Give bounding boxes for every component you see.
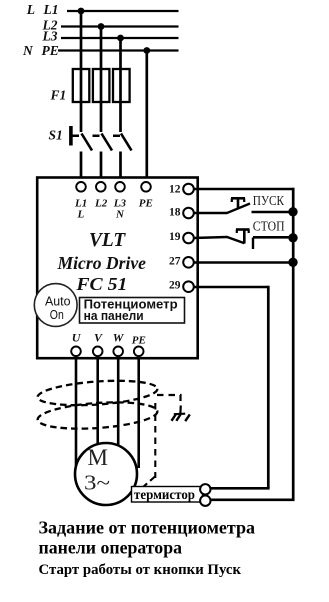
svg-text:на панели: на панели xyxy=(84,308,144,323)
svg-text:панели оператора: панели оператора xyxy=(39,538,183,558)
op-amp U1 drive box VLT Micro Drive FC 51 xyxy=(37,178,198,359)
panel potentiometer box xyxy=(80,298,185,324)
cable shield tail down xyxy=(154,403,156,478)
junction PE xyxy=(143,47,150,54)
node L L1 label xyxy=(26,2,59,17)
wire PE horizontal xyxy=(58,49,179,51)
wire L1 drop to fuse/switch xyxy=(80,11,83,132)
wire switch to terminal L3 xyxy=(119,152,122,185)
junction bus 18 xyxy=(288,207,297,216)
svg-text:Старт работы от кнопки Пуск: Старт работы от кнопки Пуск xyxy=(39,562,242,578)
cable shield loop 2 xyxy=(37,399,158,432)
svg-text:Micro Drive: Micro Drive xyxy=(56,253,146,273)
terminal 18 circle xyxy=(183,208,194,219)
svg-text:19: 19 xyxy=(169,231,181,243)
svg-text:N: N xyxy=(115,208,125,220)
node N PE label xyxy=(22,43,59,58)
junction bus 19 xyxy=(288,233,297,242)
svg-text:FC 51: FC 51 xyxy=(75,274,127,294)
panel potentiometer text xyxy=(84,297,178,323)
svg-text:Auto: Auto xyxy=(45,294,71,308)
wire switch to terminal L2 xyxy=(100,152,103,185)
cable shield tail diagonal xyxy=(143,477,156,488)
thermistor terminal upper circle xyxy=(200,484,210,494)
thermistor box xyxy=(132,487,203,503)
fuse F1 pole 2 xyxy=(93,69,110,102)
wire L3 horizontal xyxy=(61,37,179,39)
fuse F1 pole 1 xyxy=(73,69,90,102)
svg-text:18: 18 xyxy=(169,206,181,218)
svg-text:L2: L2 xyxy=(94,198,108,210)
wire U to motor xyxy=(75,356,78,466)
svg-text:термистор: термистор xyxy=(134,487,195,502)
wire terminal 27 to bus xyxy=(193,261,293,264)
cable shield loop 1 xyxy=(37,377,158,408)
terminal 19 circle xyxy=(183,233,194,244)
svg-text:F1: F1 xyxy=(50,88,67,103)
wire start button to bus xyxy=(252,211,294,214)
svg-text:29: 29 xyxy=(169,280,181,292)
wire PE to motor xyxy=(137,356,140,468)
terminal L2 input circle xyxy=(96,182,106,192)
terminal W circle xyxy=(113,347,123,357)
wire 29 to thermistor upper xyxy=(211,487,270,490)
svg-text:S1: S1 xyxy=(49,128,63,143)
wire V to motor xyxy=(96,356,99,446)
svg-text:L3: L3 xyxy=(42,29,58,44)
svg-text:ПУСК: ПУСК xyxy=(253,193,284,208)
svg-text:On: On xyxy=(50,308,64,322)
svg-text:VLT: VLT xyxy=(89,230,126,251)
junction bus 27 xyxy=(288,258,297,267)
junction L2 xyxy=(98,23,105,30)
svg-text:27: 27 xyxy=(169,256,181,268)
motor M1 circle xyxy=(75,443,137,505)
thermistor terminal lower circle xyxy=(200,496,210,506)
switch S1 handle bar xyxy=(69,126,73,146)
junction L3 xyxy=(117,35,124,42)
wire L3 drop xyxy=(119,38,122,132)
terminal PE input circle xyxy=(141,182,151,192)
svg-text:PE: PE xyxy=(132,335,146,347)
switch S1 blade 3 xyxy=(121,134,132,151)
terminal 12 circle xyxy=(183,184,194,195)
switch S1 blade 2 xyxy=(102,134,113,151)
svg-text:W: W xyxy=(113,331,125,345)
wire L2 horizontal xyxy=(61,25,179,27)
wire PE drop to terminal xyxy=(145,51,148,185)
svg-text:3~: 3~ xyxy=(84,471,110,495)
svg-text:СТОП: СТОП xyxy=(253,219,285,234)
wire terminal 12 to bus xyxy=(193,188,293,191)
svg-text:L1: L1 xyxy=(43,2,59,17)
terminal PE output circle xyxy=(134,347,144,357)
wire terminal 19 to stop button xyxy=(193,237,227,238)
stop button actuator xyxy=(236,230,250,244)
wire terminal 18 to start button xyxy=(193,212,227,215)
button Auto On circle xyxy=(34,284,77,327)
svg-text:L: L xyxy=(26,2,35,17)
switch S1 blade 1 xyxy=(82,134,93,151)
wire L1 horizontal xyxy=(67,10,179,12)
button Auto On text xyxy=(45,294,71,322)
start button blade xyxy=(227,204,251,214)
svg-text:U: U xyxy=(72,331,82,345)
terminal 29 circle xyxy=(183,281,194,292)
svg-text:V: V xyxy=(94,331,103,345)
terminal U circle xyxy=(71,347,81,357)
svg-text:N: N xyxy=(22,43,34,58)
junction L1 xyxy=(78,8,85,15)
wire switch to terminal L1 xyxy=(80,152,83,185)
svg-text:PE: PE xyxy=(139,198,153,210)
switch S1 linkage dashes xyxy=(72,135,121,138)
wire terminal 29 right xyxy=(193,286,268,289)
ground symbol xyxy=(172,406,190,422)
svg-text:М: М xyxy=(88,445,108,470)
wire L2 drop xyxy=(100,27,103,133)
stop button blade xyxy=(226,237,244,244)
wire W to motor xyxy=(117,356,120,446)
svg-text:Задание от потенциометра: Задание от потенциометра xyxy=(39,518,256,538)
wire 29 vertical xyxy=(267,286,270,489)
wire bus to thermistor lower xyxy=(211,498,295,501)
wire stop button to bus xyxy=(253,236,293,239)
stop button fixed contact xyxy=(252,238,254,250)
svg-text:12: 12 xyxy=(169,183,181,195)
terminal V circle xyxy=(93,347,103,357)
cable shield hook to ground xyxy=(157,395,181,405)
terminal L1 input circle xyxy=(76,182,86,192)
wire right bus vertical xyxy=(292,188,295,500)
fuse F1 pole 3 xyxy=(113,69,130,102)
start button actuator xyxy=(231,198,245,208)
svg-text:PE: PE xyxy=(42,43,59,58)
terminal L3 input circle xyxy=(115,182,125,192)
terminal 27 circle xyxy=(183,257,194,268)
svg-text:L: L xyxy=(77,208,85,220)
